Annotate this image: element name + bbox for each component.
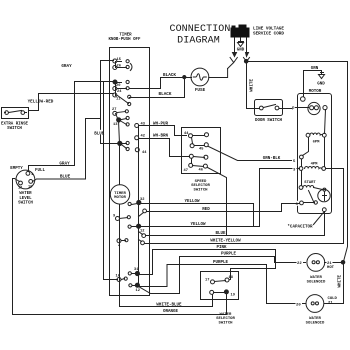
wire BLUE row to capacitor bbox=[146, 212, 325, 236]
svg-text:12: 12 bbox=[18, 187, 22, 191]
water level switch circle bbox=[16, 170, 35, 189]
timer contact 43 bbox=[135, 123, 146, 128]
svg-text:SERVICE CORD: SERVICE CORD bbox=[253, 32, 284, 37]
wire RED row to motor 6 bbox=[147, 204, 300, 212]
timer junction 12 bbox=[129, 283, 140, 293]
bus gray left of timer bbox=[104, 82, 118, 280]
svg-text:WHITE-YELLOW: WHITE-YELLOW bbox=[210, 240, 241, 244]
water solenoid 2 circle bbox=[306, 295, 324, 313]
fuse element squiggle bbox=[193, 74, 206, 80]
extra rinse arm pivots bbox=[5, 112, 27, 114]
timer contact 27 bbox=[112, 108, 128, 115]
svg-text:SELECTOR: SELECTOR bbox=[216, 317, 235, 321]
water selector arm top bbox=[215, 281, 226, 282]
svg-text:22: 22 bbox=[297, 262, 302, 266]
svg-text:START: START bbox=[304, 181, 316, 185]
timer junction 31 bbox=[128, 268, 139, 276]
title CONNECTION DIAGRAM bbox=[169, 24, 230, 47]
svg-text:GRN-BLK: GRN-BLK bbox=[263, 157, 281, 161]
wls terminal 2 bottom left bbox=[19, 181, 23, 185]
water selector terminal 19 bbox=[224, 290, 228, 294]
svg-text:SWITCH: SWITCH bbox=[193, 189, 208, 193]
svg-text:EMPTY: EMPTY bbox=[10, 167, 23, 171]
extra rinse terminal right bbox=[21, 111, 25, 115]
motor box bbox=[298, 94, 332, 214]
wire yellow-red box stub bbox=[29, 110, 39, 112]
wire purple1 left staircase to 12 junction bbox=[140, 257, 180, 294]
svg-text:SWITCH: SWITCH bbox=[18, 202, 33, 206]
wire WH-PUR from timer 43 to speed selector 44 bbox=[140, 126, 187, 136]
svg-text:GRAY: GRAY bbox=[59, 162, 70, 167]
motor terminal right of rotor bbox=[323, 106, 327, 110]
wire BLACK upper from timer to fuse bbox=[130, 78, 183, 89]
wire GRAY stub from wls terminal 1 bbox=[29, 166, 75, 172]
svg-text:45: 45 bbox=[199, 148, 204, 152]
wire PURPLE2 row to solenoid 2 bbox=[167, 265, 306, 304]
label WATER SOLENOID 2 bbox=[306, 317, 325, 326]
svg-text:GND: GND bbox=[237, 49, 245, 53]
solenoid 2 coil bbox=[311, 302, 314, 305]
timer inner bus x138 bbox=[138, 126, 140, 286]
bus gray top link to contact 20 bbox=[104, 81, 114, 83]
motor 6PM winding left circle bbox=[306, 133, 310, 137]
service cord plug bbox=[231, 25, 250, 38]
speed selector row2 arm bbox=[195, 145, 205, 147]
timer contact blue bbox=[139, 232, 146, 238]
svg-text:19: 19 bbox=[231, 294, 235, 298]
label WATER SOLENOID 1 bbox=[307, 276, 326, 285]
wire motor 3 row to right riser bbox=[326, 168, 344, 170]
connector chevron black bbox=[228, 58, 238, 69]
wire WHITE-BLUE row bbox=[120, 280, 213, 307]
wire yellow riser to motor 3 bbox=[260, 168, 300, 170]
wire orange riser to water selector 19 bbox=[226, 295, 228, 315]
motor 4PM winding left circle bbox=[299, 167, 303, 171]
speed selector row3 right bbox=[204, 155, 208, 159]
timer contact white-yellow bbox=[139, 240, 145, 245]
wls terminal 1 top bbox=[26, 172, 30, 176]
speed selector left link rows3-4 bbox=[191, 159, 193, 164]
svg-text:44: 44 bbox=[184, 132, 189, 136]
svg-text:31: 31 bbox=[134, 268, 139, 272]
label SPEED SELECTOR SWITCH bbox=[191, 180, 210, 193]
label TIMER KNOB-PUSH OFF bbox=[109, 34, 141, 43]
speed selector row4 arm bbox=[193, 166, 204, 167]
label 20 bbox=[296, 301, 303, 306]
svg-text:SOLENOID: SOLENOID bbox=[307, 281, 326, 285]
speed selector terminal 46 bbox=[203, 164, 207, 168]
svg-text:YELLOW: YELLOW bbox=[184, 200, 200, 204]
svg-text:*CAPACITOR: *CAPACITOR bbox=[287, 225, 313, 230]
label 21 HOT bbox=[327, 260, 335, 270]
capacitor top terminal bbox=[323, 188, 326, 191]
capacitor label pointer bbox=[314, 213, 324, 225]
svg-text:ORANGE: ORANGE bbox=[163, 310, 179, 314]
junction node fuse left bbox=[183, 76, 186, 79]
motor 4PM winding coil bbox=[305, 167, 322, 169]
capacitor inner mark bbox=[323, 192, 327, 201]
svg-text:SELECTOR: SELECTOR bbox=[191, 184, 210, 188]
extra rinse terminal left bbox=[5, 111, 9, 115]
water selector terminal 18 bbox=[225, 278, 229, 282]
svg-text:15: 15 bbox=[117, 58, 122, 62]
svg-text:PURPLE: PURPLE bbox=[213, 261, 229, 265]
svg-text:LEVEL: LEVEL bbox=[19, 197, 32, 201]
svg-text:21: 21 bbox=[328, 302, 333, 306]
timer inner bus left col contacts 27-13 bbox=[116, 114, 119, 121]
svg-text:YELLOW: YELLOW bbox=[190, 223, 206, 227]
water solenoid 1 circle bbox=[307, 254, 325, 272]
svg-text:FULL: FULL bbox=[35, 169, 46, 173]
label 22 bbox=[297, 260, 304, 265]
connector chevron white bbox=[244, 58, 250, 62]
svg-text:BLACK: BLACK bbox=[159, 92, 172, 97]
timer contact 42 bbox=[135, 135, 145, 140]
svg-text:RED: RED bbox=[202, 208, 210, 212]
timer inner bus left col top contacts 15-26 bbox=[115, 62, 117, 68]
svg-text:SOLENOID: SOLENOID bbox=[306, 322, 325, 326]
svg-text:WH-PUR: WH-PUR bbox=[153, 123, 169, 127]
svg-text:4: 4 bbox=[118, 245, 121, 249]
timer contact 11 bbox=[113, 93, 131, 106]
svg-text:GRAY: GRAY bbox=[61, 64, 72, 69]
wire WH-BRN from timer 42 to speed selector row3 bbox=[140, 139, 190, 157]
wire YELLOW-RED from extra rinse to timer bbox=[39, 94, 114, 111]
svg-text:47: 47 bbox=[184, 169, 188, 173]
svg-text:11: 11 bbox=[116, 98, 121, 102]
svg-text:6PM: 6PM bbox=[313, 141, 321, 145]
svg-text:24: 24 bbox=[117, 90, 122, 94]
door switch arm bbox=[264, 105, 276, 108]
svg-text:DOOR SWITCH: DOOR SWITCH bbox=[255, 119, 283, 123]
motor start winding coil bbox=[303, 185, 314, 187]
wire BLACK lower from timer to fuse junction bbox=[130, 80, 185, 98]
svg-text:DIAGRAM: DIAGRAM bbox=[177, 36, 220, 47]
wire ORANGE left riser from wls arm bbox=[13, 179, 227, 315]
motor rotor inner circles bbox=[310, 106, 314, 110]
motor 4PM winding right circle bbox=[322, 167, 326, 171]
speed selector row2 right bbox=[204, 143, 208, 147]
water selector terminal bottom left bbox=[210, 290, 214, 294]
svg-text:32: 32 bbox=[140, 198, 144, 202]
wire WHITE-YELLOW row to right riser bbox=[145, 169, 344, 244]
svg-text:COLD: COLD bbox=[328, 297, 338, 301]
wire purple2 left staircase bbox=[140, 265, 168, 287]
speed selector row3 left bbox=[189, 154, 193, 158]
svg-text:CONNECTION: CONNECTION bbox=[169, 24, 230, 35]
speed selector row1 arm bbox=[193, 135, 205, 137]
label EXTRA RINSE SWITCH bbox=[1, 123, 29, 132]
motor start winding left circle bbox=[299, 186, 303, 190]
water selector terminal 17 bbox=[211, 280, 215, 284]
svg-text:WHITE: WHITE bbox=[338, 274, 342, 287]
svg-text:SWITCH: SWITCH bbox=[218, 322, 233, 326]
wire speed selector 46 diagonal to blue riser bbox=[208, 168, 227, 236]
timer box bbox=[110, 48, 150, 296]
svg-text:KNOB-PUSH OFF: KNOB-PUSH OFF bbox=[109, 38, 141, 42]
motor terminal 6 bbox=[300, 201, 304, 205]
timer motor M bbox=[110, 185, 129, 204]
svg-text:YELLOW-RED: YELLOW-RED bbox=[28, 100, 54, 105]
timer contact 26 bbox=[113, 64, 132, 71]
svg-text:GRN: GRN bbox=[311, 67, 319, 71]
timer junction 33 bbox=[128, 224, 144, 233]
svg-text:GND: GND bbox=[317, 83, 325, 87]
wire PINK row bbox=[153, 250, 276, 280]
svg-text:13: 13 bbox=[113, 123, 118, 127]
svg-text:4PM: 4PM bbox=[311, 163, 319, 167]
wire GRN from motor to ground bbox=[304, 71, 322, 97]
wire speed selector row2 diagonal to grn-blk bbox=[209, 147, 292, 161]
motor capacitor circle bbox=[318, 189, 330, 201]
motor left link 5 to 4PM bbox=[301, 160, 303, 167]
motor right bus down bbox=[325, 110, 326, 167]
svg-text:16: 16 bbox=[28, 186, 32, 190]
bus blue top link to contact 15 bbox=[101, 60, 114, 62]
door switch terminal right bbox=[275, 106, 279, 110]
water selector arm bottom bbox=[214, 292, 225, 294]
speed selector left link rows1-2 bbox=[192, 138, 193, 144]
motor start link to capacitor bbox=[314, 188, 323, 190]
label 6 bbox=[295, 201, 299, 206]
svg-text:1: 1 bbox=[31, 173, 33, 177]
svg-text:HOT: HOT bbox=[327, 266, 335, 270]
svg-text:16: 16 bbox=[116, 275, 120, 279]
svg-text:44: 44 bbox=[142, 151, 147, 155]
svg-text:MOTOR: MOTOR bbox=[114, 196, 126, 200]
door switch terminal left bbox=[259, 106, 263, 110]
svg-text:20: 20 bbox=[296, 303, 301, 307]
wire BLUE from wls terminal 16 to blue bus bbox=[33, 119, 101, 182]
door switch box bbox=[255, 100, 283, 116]
motor left link 4PM to start bbox=[301, 171, 303, 186]
motor left link 6PM to 5 bbox=[303, 138, 309, 156]
wire fuse right to cord connector bbox=[209, 69, 228, 78]
motor arm 6 to centrifugal bbox=[304, 202, 315, 204]
timer contact red tail bbox=[139, 209, 147, 217]
timer junction 14 bbox=[118, 141, 129, 150]
extra rinse switch arm bbox=[9, 111, 22, 113]
speed selector row2 left bbox=[190, 144, 194, 148]
svg-text:WATER: WATER bbox=[310, 276, 322, 280]
svg-text:BLACK: BLACK bbox=[163, 73, 176, 78]
arrowhead black stub bbox=[233, 53, 237, 57]
wls terminal 6 bottom right bbox=[29, 180, 33, 184]
timer junction 32 bbox=[128, 198, 144, 206]
svg-text:PINK: PINK bbox=[216, 246, 227, 250]
motor 6PM winding coil bbox=[310, 133, 322, 135]
junction node white cord bbox=[244, 59, 248, 63]
wire white branch down to door switch bbox=[247, 64, 260, 109]
svg-text:BLUE: BLUE bbox=[60, 175, 71, 180]
speed selector terminal 47 bbox=[189, 163, 193, 167]
solenoid 1 coil bbox=[312, 261, 315, 264]
wire 31 junction to pink riser bbox=[140, 274, 153, 276]
svg-text:18: 18 bbox=[229, 276, 234, 280]
label 5 bbox=[293, 158, 297, 163]
gnd arrow symbol bbox=[238, 42, 244, 47]
wire fuse left stub bbox=[187, 77, 192, 79]
centrifugal switch contact bbox=[314, 201, 317, 204]
timer contact 15 bbox=[113, 58, 129, 63]
svg-text:BLUE: BLUE bbox=[215, 232, 226, 236]
svg-text:12: 12 bbox=[136, 289, 140, 293]
bus blue left of timer bbox=[101, 61, 118, 144]
motor terminal 5 bbox=[300, 155, 304, 159]
timer inner bus x119 long bbox=[119, 121, 120, 280]
svg-text:46: 46 bbox=[199, 169, 203, 173]
svg-text:26: 26 bbox=[117, 65, 121, 69]
svg-text:WHITE-BLUE: WHITE-BLUE bbox=[156, 304, 182, 308]
label 3 bbox=[293, 166, 297, 171]
ground symbol motor bbox=[319, 73, 325, 79]
timer contact 16 bbox=[116, 275, 128, 282]
timer junction 13 bbox=[113, 116, 129, 127]
svg-text:27: 27 bbox=[112, 108, 116, 112]
label LINE VOLTAGE SERVICE CORD bbox=[253, 27, 284, 37]
svg-text:WH-BRN: WH-BRN bbox=[153, 135, 169, 139]
svg-text:17: 17 bbox=[205, 279, 209, 283]
timer contact 44 bbox=[135, 148, 147, 155]
svg-text:WHITE: WHITE bbox=[249, 78, 254, 91]
wire door switch to motor P bbox=[280, 108, 309, 109]
motor 6PM winding right circle bbox=[322, 133, 326, 137]
svg-text:42: 42 bbox=[141, 135, 145, 139]
fuse F1 bbox=[191, 68, 209, 86]
svg-text:WATER: WATER bbox=[19, 192, 32, 196]
svg-text:PURPLE: PURPLE bbox=[221, 253, 237, 257]
timer contact 4 bbox=[117, 239, 128, 249]
arrowhead white stub bbox=[246, 53, 249, 57]
speed selector terminal 44 bbox=[189, 134, 193, 138]
centrifugal switch arm bbox=[309, 191, 314, 202]
water selector switch box bbox=[201, 272, 239, 300]
wire white down to solenoid 2 bbox=[325, 265, 344, 304]
junction node hot bbox=[341, 261, 345, 265]
timer inner bus left col contacts 20-11 bbox=[115, 83, 117, 96]
timer contact 24 bbox=[113, 87, 129, 95]
label WATER LEVEL SWITCH bbox=[18, 192, 33, 206]
svg-text:EXTRA RINSE: EXTRA RINSE bbox=[1, 123, 29, 127]
timer junction 20 bbox=[113, 80, 129, 88]
wire YELLOW lower row bbox=[141, 169, 260, 227]
motor rotor circle bbox=[308, 102, 320, 114]
speed selector switch box bbox=[182, 128, 221, 174]
wire solenoid 1 right to junction bbox=[325, 262, 342, 264]
capacitor bottom terminal bbox=[322, 208, 326, 212]
label COLD 21 bbox=[328, 297, 338, 306]
wire PURPLE1 row to solenoid 1 bbox=[180, 257, 306, 263]
wire GRAY riser from water level switch bbox=[74, 82, 76, 166]
svg-text:9: 9 bbox=[113, 215, 115, 219]
wire gray top link bbox=[75, 81, 104, 83]
svg-text:FUSE: FUSE bbox=[195, 88, 206, 93]
speed selector row3 arm bbox=[194, 157, 205, 158]
motor gnd terminal bbox=[301, 97, 306, 102]
wire WHITE service line to right edge and down to solenoid junction bbox=[249, 62, 348, 262]
wire YELLOW upper row bbox=[142, 204, 254, 227]
cord middle gnd stub bbox=[240, 38, 242, 41]
cord black stub wire bbox=[234, 38, 236, 53]
svg-text:SWITCH: SWITCH bbox=[7, 127, 22, 131]
svg-text:WATER: WATER bbox=[309, 317, 321, 321]
timer contact 9 bbox=[113, 215, 130, 221]
speed selector row1 right bbox=[205, 133, 209, 137]
cord white stub wire bbox=[246, 38, 248, 53]
label BLUE vertical bbox=[95, 130, 103, 135]
wls labels 1 2 6 bbox=[18, 173, 33, 191]
wls arm from terminal 2 bbox=[15, 179, 20, 182]
label WATER SELECTOR SWITCH bbox=[216, 313, 235, 326]
svg-text:P: P bbox=[292, 108, 295, 112]
svg-text:TIMER: TIMER bbox=[119, 34, 132, 38]
extra rinse switch box bbox=[2, 108, 29, 119]
